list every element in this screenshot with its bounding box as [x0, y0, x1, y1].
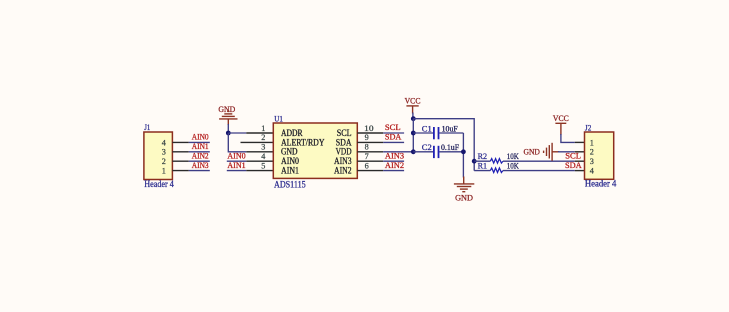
wire GND to J2 pin 2 — [558, 151, 575, 153]
svg-text:0.1uF: 0.1uF — [441, 142, 459, 152]
svg-text:9: 9 — [365, 133, 369, 142]
wire AIN2 at U1 — [383, 170, 404, 172]
wire VCC stem — [412, 113, 414, 119]
wire AIN3 at J1 — [189, 170, 210, 172]
power symbol VCC at J2 — [553, 113, 569, 135]
svg-text:3: 3 — [590, 157, 594, 166]
svg-text:1: 1 — [261, 124, 265, 133]
svg-text:C2: C2 — [422, 142, 432, 152]
wire GND stem to junction — [227, 124, 229, 133]
wire AIN0 to U1 pin 4 — [227, 160, 247, 162]
wire AIN3 at U1 — [383, 160, 404, 162]
svg-text:5: 5 — [261, 161, 265, 170]
svg-text:2: 2 — [261, 133, 265, 142]
svg-text:1: 1 — [162, 167, 166, 176]
U1 pin 8 stub — [357, 151, 383, 153]
junction C2 right — [461, 149, 466, 154]
junction C1 tap — [411, 131, 416, 136]
wire AIN2 at J1 — [189, 160, 210, 162]
svg-text:VCC: VCC — [405, 95, 421, 105]
J1 pin 4 stub — [172, 141, 188, 143]
wire junction down to U1 pin 3 row — [228, 133, 246, 152]
svg-text:4: 4 — [261, 152, 265, 161]
wire VCC vertical rail — [412, 119, 414, 152]
svg-text:2: 2 — [162, 157, 166, 166]
wire C1/C2 common to ground — [462, 133, 464, 178]
svg-text:J1: J1 — [144, 122, 150, 132]
svg-text:8: 8 — [365, 143, 369, 152]
svg-text:AIN1: AIN1 — [281, 166, 299, 176]
svg-text:U1: U1 — [274, 113, 283, 123]
svg-text:10uF: 10uF — [442, 123, 458, 133]
junction VDD/C2 tap — [411, 149, 416, 154]
power symbol VCC middle — [405, 95, 421, 113]
svg-text:2: 2 — [590, 148, 594, 157]
IC U1 ADS1115 body — [273, 113, 357, 190]
U1 pin 3 stub — [246, 151, 273, 153]
U1 pin 7 stub — [357, 160, 383, 162]
ground symbol GND bottom — [454, 177, 474, 203]
capacitor C1 — [413, 123, 463, 139]
J1 pin 3 stub — [172, 151, 188, 153]
J1 pin 1 stub — [172, 170, 188, 172]
svg-text:GND: GND — [524, 146, 540, 156]
svg-text:10: 10 — [364, 124, 373, 133]
wire AIN0 at J1 — [189, 141, 210, 143]
svg-text:3: 3 — [162, 148, 166, 157]
U1 pin 6 stub — [357, 170, 383, 172]
U1 pin 10 stub — [357, 132, 383, 134]
svg-text:C1: C1 — [422, 123, 432, 133]
svg-text:7: 7 — [365, 152, 369, 161]
U1 pin 9 stub — [357, 141, 383, 143]
resistor R1 — [474, 161, 575, 173]
junction at ADDR node — [226, 131, 231, 136]
J2 pin 3 stub — [575, 160, 585, 162]
svg-text:1: 1 — [590, 138, 594, 147]
svg-text:3: 3 — [261, 143, 265, 152]
wire VCC top rail to pullups — [413, 119, 474, 171]
svg-text:AIN3: AIN3 — [192, 160, 209, 170]
svg-text:Header 4: Header 4 — [144, 180, 174, 190]
svg-text:Header 4: Header 4 — [585, 179, 617, 189]
U1 pin 4 stub — [246, 160, 273, 162]
svg-text:J2: J2 — [585, 122, 591, 132]
connector J1 — [144, 122, 174, 190]
svg-text:SDA: SDA — [385, 132, 402, 142]
wire VDD to VCC rail — [383, 151, 413, 153]
svg-text:AIN2: AIN2 — [385, 160, 404, 170]
wire AIN1 to U1 pin 5 — [227, 170, 247, 172]
connector J2 — [585, 122, 617, 189]
svg-text:10K: 10K — [507, 161, 520, 171]
U1 pin 2 stub (ALERT/RDY) — [241, 141, 274, 143]
svg-text:ADS1115: ADS1115 — [274, 181, 306, 191]
J1 pin 2 stub — [172, 160, 188, 162]
svg-text:4: 4 — [590, 167, 594, 176]
U1 pin 5 stub — [246, 170, 273, 172]
svg-text:VCC: VCC — [553, 113, 569, 123]
svg-text:SDA: SDA — [565, 160, 582, 170]
svg-text:4: 4 — [162, 138, 166, 147]
wire junction to U1 pin 1 — [228, 132, 246, 134]
svg-text:GND: GND — [218, 104, 235, 114]
junction R2 tap — [472, 159, 477, 164]
capacitor C2 — [413, 142, 463, 158]
U1 pin 1 stub — [246, 132, 273, 134]
svg-text:6: 6 — [365, 161, 369, 170]
wire SCL at U1 — [383, 132, 404, 134]
svg-text:R1: R1 — [478, 161, 488, 171]
wire VCC to J2 pin 1 — [561, 134, 575, 142]
resistor R2 — [474, 151, 575, 163]
svg-text:AIN2: AIN2 — [334, 166, 352, 176]
ground symbol GND top — [218, 104, 237, 125]
wire SDA at U1 — [383, 141, 404, 143]
J2 pin 1 stub — [575, 141, 585, 143]
junction VCC top — [411, 116, 416, 121]
J2 pin 4 stub — [575, 170, 585, 172]
svg-text:AIN1: AIN1 — [227, 160, 245, 170]
J2 pin 2 stub — [575, 151, 585, 153]
wire AIN1 at J1 — [189, 151, 210, 153]
ground symbol GND at J2 — [524, 143, 560, 161]
svg-text:GND: GND — [455, 193, 473, 203]
